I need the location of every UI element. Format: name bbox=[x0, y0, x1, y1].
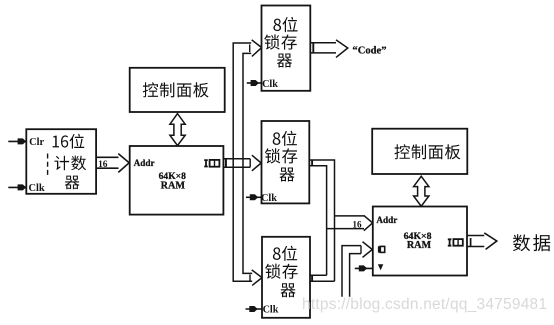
solid arrowhead Clk latch U5 bbox=[249, 306, 257, 312]
control panel 1 label 控制面板 bbox=[143, 82, 209, 97]
solid arrowhead Clr input bbox=[18, 138, 27, 144]
bus stub tick at latch U4 output bbox=[311, 160, 313, 166]
bus arrowhead Code output bbox=[336, 40, 348, 58]
solid arrowhead Clk latch U4 bbox=[250, 194, 258, 200]
bus arrowhead into latch2 bbox=[252, 155, 261, 171]
junction tick at RAM2 D arrowhead base bbox=[360, 246, 362, 254]
svg-text:RAM: RAM bbox=[407, 240, 432, 251]
counter U1 box (16-bit counter) bbox=[26, 129, 96, 194]
svg-text:“Code”: “Code” bbox=[352, 45, 386, 56]
counter U1 label 计数 bbox=[55, 156, 87, 171]
svg-text:RAM: RAM bbox=[161, 181, 186, 192]
bus wire to RAM2 Addr (shaft) bbox=[327, 216, 364, 229]
latch U4 label 器 bbox=[280, 168, 295, 182]
latch U3 label 器 bbox=[277, 54, 292, 68]
svg-text:Addr: Addr bbox=[134, 158, 155, 168]
latch U5 label 8位 bbox=[273, 246, 297, 261]
bus arrowhead into RAM2 Addr bbox=[364, 215, 373, 230]
solid arrowhead W input bbox=[359, 265, 367, 271]
bus arrowhead into RAM1 Addr bbox=[118, 154, 129, 173]
RAM U2 box (64Kx8 RAM) bbox=[130, 146, 224, 215]
double-headed arrow control panel 2 to RAM2 bbox=[414, 176, 429, 206]
bus wire latch U4 out down to RAM2 Addr (outer) bbox=[309, 160, 334, 281]
latch U4 box (8-bit latch, middle) bbox=[262, 121, 310, 203]
bus wire RAM1 data out to latch2 (shaft) bbox=[223, 159, 250, 168]
svg-text:16: 16 bbox=[352, 220, 362, 230]
RAM U6 pin label D bbox=[378, 246, 385, 252]
svg-text:Clk: Clk bbox=[261, 193, 277, 204]
RAM U2 output pin symbol IO bbox=[204, 160, 219, 167]
bus wire latch U3 out to Code (shaft) bbox=[310, 43, 336, 53]
latch U5 box (8-bit latch, bottom) bbox=[262, 237, 310, 318]
counter U1 label 16位 bbox=[53, 134, 85, 149]
net label 数据 bbox=[513, 234, 550, 251]
svg-text:Clk: Clk bbox=[262, 79, 278, 90]
svg-text:https://blog.csdn.net/qq_34759: https://blog.csdn.net/qq_34759481 bbox=[302, 296, 547, 313]
solid arrowhead Clk latch U3 bbox=[251, 80, 259, 86]
bus wire vertical outer (data bus to latches) bbox=[233, 43, 252, 281]
bus wire to RAM2 D input (bottom line, from below) bbox=[350, 254, 361, 297]
latch U5 label 锁存 bbox=[265, 264, 297, 279]
junction tick at latch3 arrowhead base bbox=[249, 275, 251, 282]
bus wire vertical inner (data bus to latches) bbox=[243, 53, 252, 273]
wire Clk input to counter bbox=[8, 186, 26, 188]
wire Clk input to latch U3 bbox=[247, 82, 262, 84]
bus arrowhead into latch3 bbox=[252, 270, 262, 286]
bus wire 16-bit counter to RAM1 (shaft) bbox=[96, 157, 118, 168]
svg-text:Clr: Clr bbox=[29, 137, 44, 148]
svg-text:Clk: Clk bbox=[263, 305, 279, 316]
bus arrowhead into latch1 bbox=[252, 40, 262, 57]
bus wire latch U5 out up (top line) bbox=[310, 274, 327, 276]
RAM U6 output pin symbol IO bbox=[448, 239, 463, 246]
bus wire latch U4 out down to RAM2 Addr (inner) bbox=[309, 166, 326, 276]
double-headed arrow control panel 1 to RAM1 bbox=[170, 114, 185, 146]
control panel 1 box bbox=[130, 68, 225, 112]
latch U4 label 8位 bbox=[273, 131, 297, 146]
svg-text:Clk: Clk bbox=[29, 183, 45, 194]
bus wire latch U5 out up (bottom line) bbox=[310, 280, 335, 282]
bus stub tick at latch U3 output bbox=[312, 43, 314, 53]
control panel 2 box bbox=[372, 129, 467, 174]
solid arrowhead Clk input bbox=[18, 184, 27, 190]
latch U3 box (8-bit latch, top) bbox=[262, 6, 311, 91]
bus arrowhead into RAM2 D bbox=[363, 242, 373, 258]
RAM U6 box (64Kx8 RAM) bbox=[373, 207, 467, 276]
bus stub tick at RAM1 output bbox=[225, 159, 227, 168]
bus stub tick at latch U5 output bbox=[311, 275, 313, 281]
bus wire to RAM2 D input (top line, from below) bbox=[342, 246, 361, 297]
svg-text:16: 16 bbox=[98, 160, 108, 170]
latch U4 label 锁存 bbox=[265, 148, 297, 163]
latch U3 label 锁存 bbox=[264, 34, 296, 49]
wire Clk input to latch U5 bbox=[246, 308, 263, 310]
counter U1 label 器 bbox=[65, 176, 80, 190]
svg-text:Addr: Addr bbox=[376, 215, 397, 225]
control panel 2 label 控制面板 bbox=[395, 144, 461, 159]
latch U5 label 器 bbox=[281, 283, 296, 297]
junction tick at latch2 arrowhead base bbox=[249, 159, 251, 168]
counter U1 internal dashed line bbox=[47, 154, 49, 177]
wire W-enable input to RAM2 bbox=[355, 267, 373, 269]
junction tick at latch1 arrowhead base bbox=[249, 45, 251, 53]
wire Clk input to latch U4 bbox=[246, 196, 262, 198]
bus arrowhead data output bbox=[484, 233, 497, 250]
latch U3 label 8位 bbox=[273, 17, 297, 32]
bus wire RAM2 data output (shaft) bbox=[467, 236, 484, 247]
wire Clr input to counter bbox=[8, 140, 26, 142]
bus stub tick at RAM2 output bbox=[470, 238, 472, 247]
RAM U6 pin label W-bar bbox=[378, 264, 383, 270]
